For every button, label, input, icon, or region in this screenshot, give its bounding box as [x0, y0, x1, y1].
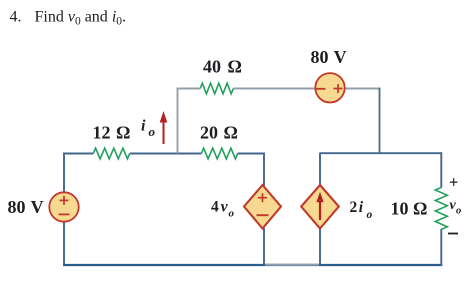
label 80 V (left source) [8, 197, 44, 217]
svg-text:o: o [149, 124, 156, 139]
resistor 10 Ohm [435, 187, 447, 229]
svg-text:12 Ω: 12 Ω [93, 123, 131, 143]
svg-text:80 V: 80 V [8, 197, 44, 217]
voltage source 80V (top, independent) [315, 73, 344, 102]
wire: top branch left segment (node to 40ohm) [177, 88, 201, 90]
label 20 Ohm [200, 123, 238, 143]
dependent voltage source 4vo (diamond) [244, 185, 281, 229]
wire: middle horizontal left segment (left node to 12ohm) [63, 153, 93, 155]
wire: top branch between 40ohm and 80V source [233, 88, 315, 90]
wire: right vertical from top corner down to T junction [379, 88, 381, 154]
svg-text:o: o [456, 206, 461, 217]
wire: middle horizontal right of 20ohm, corner down to 4vo diamond [238, 154, 264, 186]
svg-text:4v: 4v [211, 199, 229, 216]
label 12 Ohm [93, 123, 131, 143]
resistor 12 Ohm [93, 148, 129, 159]
wire: 2io diamond bottom vertical [319, 228, 321, 265]
svg-text:80 V: 80 V [311, 47, 347, 67]
label 80 V (top source) [311, 47, 347, 67]
label + (10 ohm polarity) [449, 173, 458, 192]
svg-text:Find v0 and i0.: Find v0 and i0. [35, 9, 127, 28]
voltage source 80V (left, independent) [49, 192, 78, 221]
svg-text:4.: 4. [10, 9, 22, 26]
problem title text "4. Find v0 and i0." [10, 9, 127, 28]
label 4vo [211, 199, 235, 220]
wire: 2io diamond top vertical [319, 153, 321, 186]
label 2io [350, 199, 373, 221]
svg-text:2i: 2i [350, 199, 364, 216]
wire: right T horizontal [320, 152, 442, 154]
resistor 20 Ohm [201, 148, 237, 159]
wire: left vertical bottom (80V source to bottom rail) [63, 223, 65, 266]
svg-text:20 Ω: 20 Ω [200, 123, 238, 143]
label io [141, 118, 156, 140]
wire: right branch top (T to 10ohm) [440, 152, 442, 188]
svg-text:40 Ω: 40 Ω [203, 57, 242, 77]
wire: node vertical up to top branch (light grey) [177, 88, 179, 154]
wire: top branch right of 80V source to corner [346, 88, 381, 90]
svg-text:o: o [229, 208, 235, 220]
svg-text:o: o [367, 209, 373, 221]
wire: bottom rail light segment between diamond branches [265, 264, 319, 266]
wire: bottom rail [63, 264, 442, 266]
label 40 Ohm [203, 57, 242, 77]
wire: left vertical top (left node down to 80V source) [63, 153, 65, 193]
svg-text:i: i [141, 118, 146, 135]
wire: right branch bottom (10ohm to bottom rail) [440, 229, 442, 266]
label 10 Ohm [391, 199, 428, 219]
svg-text:10 Ω: 10 Ω [391, 199, 428, 219]
label - (10 ohm polarity) [448, 233, 458, 235]
wire: 4vo diamond bottom vertical [263, 228, 265, 265]
label vo (10 ohm voltage) [450, 198, 462, 217]
wire: middle horizontal 12ohm to 20ohm across node [130, 153, 202, 155]
dependent current source 2io (diamond with up arrow) [301, 185, 339, 229]
resistor 40 Ohm [200, 83, 233, 94]
svg-text:+: + [449, 173, 458, 192]
current arrow io (red, pointing up) [160, 111, 168, 144]
